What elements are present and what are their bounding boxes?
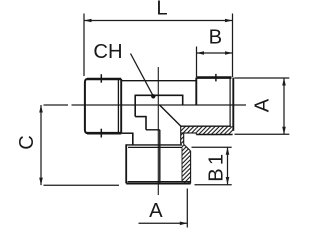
dimension A bottom [139,189,188,228]
centerline vertical branch axis [157,67,159,195]
bore cone diagonal [159,105,181,126]
svg-text:B1: B1 [206,151,228,182]
section boundary line [159,130,161,184]
svg-text:A: A [149,200,163,222]
dimension B [197,47,233,78]
right male port [196,78,233,131]
hex flats CH outline [135,95,183,130]
CH leader dot [151,94,155,98]
sectioned wall edge strokes [181,126,233,183]
body bottom silhouette [146,129,160,131]
dimension B1 [192,147,232,184]
dimension L [84,14,233,78]
right port thread tick [215,74,217,82]
sectioned wall hatch fills [181,126,233,183]
dimension A right [235,78,290,134]
svg-text:C: C [16,135,38,150]
CH leader line [131,54,154,97]
svg-text:CH: CH [93,41,122,63]
centerline horizontal axis [44,104,247,106]
boss drop edge under left port [132,133,134,145]
dimension C [39,105,119,185]
body top silhouette [121,80,196,82]
left male port body [85,79,133,133]
svg-text:A: A [252,98,274,112]
bottom socket outline [126,144,190,183]
svg-text:L: L [156,0,167,20]
svg-text:B: B [209,27,222,49]
left port thread tick bottom [100,129,102,138]
left port thread tick top [100,74,102,83]
